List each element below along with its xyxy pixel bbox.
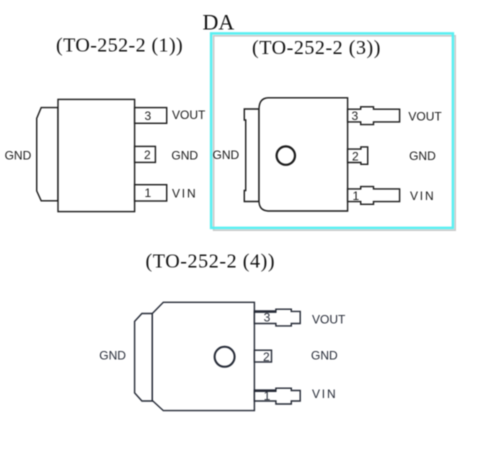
svg-text:VOUT: VOUT	[172, 108, 206, 122]
svg-text:2: 2	[144, 148, 151, 162]
svg-text:VOUT: VOUT	[408, 109, 442, 123]
highlight box (cyan) around TO-252-2 (3)	[211, 33, 453, 228]
package K4 pin 3	[254, 309, 300, 326]
svg-text:(TO-252-2 (3)): (TO-252-2 (3))	[252, 37, 381, 59]
svg-text:GND: GND	[99, 349, 126, 363]
svg-text:GND: GND	[311, 348, 338, 362]
package K4 mounting hole	[215, 347, 235, 367]
package K4 tab (GND heatsink)	[135, 314, 153, 402]
svg-text:VIN: VIN	[410, 189, 435, 203]
svg-text:3: 3	[351, 109, 358, 123]
svg-text:1: 1	[144, 186, 151, 200]
svg-text:1: 1	[352, 189, 359, 203]
package K3 tab (GND heatsink)	[244, 109, 259, 202]
svg-text:GND: GND	[409, 149, 436, 163]
package K3 mounting hole	[277, 146, 295, 164]
package K1 tab (GND heatsink)	[37, 108, 58, 201]
svg-text:GND: GND	[5, 148, 32, 162]
svg-text:2: 2	[263, 350, 270, 364]
svg-text:GND: GND	[171, 149, 198, 163]
package K3 body	[259, 98, 348, 211]
package K1 pin 2	[135, 146, 156, 162]
package K1 pin 3	[135, 108, 167, 124]
package K3 pin 2	[348, 147, 368, 164]
package K1 pin 1	[135, 185, 167, 201]
svg-text:DA: DA	[203, 10, 235, 35]
package K4 pin 2	[254, 350, 271, 362]
svg-text:2: 2	[352, 149, 359, 163]
selection shadow (gray) of highlight box	[214, 36, 456, 230]
svg-text:VIN: VIN	[172, 186, 197, 200]
package K4 pin 1 thick pad edge	[254, 389, 277, 392]
svg-text:GND: GND	[213, 148, 240, 162]
package K1 body	[58, 99, 135, 211]
package K4 body	[152, 302, 254, 410]
svg-text:VIN: VIN	[312, 387, 337, 401]
svg-text:(TO-252-2 (1)): (TO-252-2 (1))	[56, 34, 183, 56]
package K3 pin 3	[348, 107, 400, 125]
svg-text:(TO-252-2 (4)): (TO-252-2 (4))	[146, 251, 276, 273]
svg-text:1: 1	[264, 389, 271, 403]
package K3 pin 1	[348, 187, 400, 205]
svg-text:3: 3	[144, 109, 151, 123]
package K4 pin 1	[254, 388, 300, 404]
svg-text:VOUT: VOUT	[312, 312, 346, 326]
package K4 pin 3 thick pad edge	[254, 310, 277, 313]
svg-text:3: 3	[264, 310, 271, 324]
